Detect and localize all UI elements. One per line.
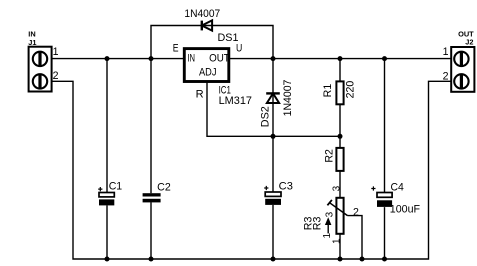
svg-text:R3: R3 (311, 217, 323, 231)
svg-text:R1: R1 (322, 84, 334, 98)
svg-text:2: 2 (443, 70, 449, 82)
svg-text:J1: J1 (28, 38, 36, 47)
svg-text:R2: R2 (324, 149, 336, 163)
svg-text:1: 1 (331, 238, 342, 244)
svg-text:100uF: 100uF (390, 204, 421, 216)
svg-text:1: 1 (443, 46, 449, 58)
svg-text:DS1: DS1 (218, 32, 239, 44)
svg-text:J2: J2 (465, 38, 473, 47)
svg-text:OUT: OUT (209, 53, 230, 65)
svg-text:C1: C1 (109, 181, 123, 193)
svg-text:3: 3 (331, 185, 342, 191)
svg-text:C3: C3 (279, 181, 293, 193)
svg-text:1N4007: 1N4007 (282, 79, 294, 116)
svg-text:IN: IN (187, 53, 195, 65)
svg-text:3: 3 (324, 211, 335, 217)
svg-text:2: 2 (53, 70, 59, 82)
svg-text:C2: C2 (157, 182, 171, 194)
svg-text:DS2: DS2 (260, 106, 272, 127)
svg-text:LM317: LM317 (219, 95, 252, 107)
svg-text:E: E (173, 42, 179, 54)
svg-text:R: R (196, 89, 204, 101)
svg-text:220: 220 (345, 81, 357, 99)
svg-text:1N4007: 1N4007 (184, 8, 220, 20)
svg-text:1: 1 (53, 46, 59, 58)
svg-text:1: 1 (322, 233, 333, 239)
svg-text:C4: C4 (391, 182, 404, 194)
svg-text:2: 2 (353, 206, 359, 218)
svg-text:ADJ: ADJ (199, 67, 217, 79)
